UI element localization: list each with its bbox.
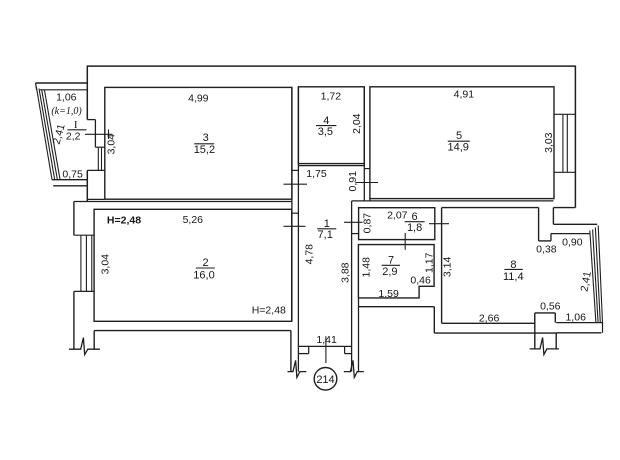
hall below room 4: [298, 87, 370, 201]
svg-text:16,0: 16,0: [193, 270, 214, 282]
svg-text:4,78: 4,78: [303, 244, 315, 265]
wall left lower: [74, 291, 291, 371]
svg-text:3,04: 3,04: [99, 254, 111, 275]
svg-text:15,2: 15,2: [194, 144, 215, 156]
svg-text:0,46: 0,46: [410, 274, 431, 286]
wall band below room 7: [359, 307, 435, 333]
svg-text:1,48: 1,48: [361, 257, 373, 278]
wall top outer: [87, 65, 575, 67]
corridor right wall pair: [352, 201, 359, 372]
svg-text:0,38: 0,38: [536, 244, 557, 256]
room 3: [105, 87, 292, 199]
room 7 number: [382, 255, 400, 278]
svg-text:2,9: 2,9: [382, 266, 397, 278]
svg-text:4,99: 4,99: [188, 92, 209, 104]
dimension tick 1,17 wall: [429, 223, 449, 225]
svg-text:H=2,48: H=2,48: [107, 215, 141, 227]
dimension ticks left pair: [284, 183, 308, 185]
window balcony-room3: [87, 147, 105, 170]
wall pair rooms3/2 vs corridor: [292, 87, 299, 347]
dimension tick 0,91: [356, 182, 379, 184]
wall left upper: [87, 66, 95, 148]
room 3 number: [194, 132, 215, 156]
svg-text:11,4: 11,4: [503, 271, 524, 283]
svg-text:1,17: 1,17: [424, 252, 436, 273]
svg-text:2,07: 2,07: [387, 210, 408, 222]
balcony right top wall: [551, 224, 597, 241]
svg-text:1,06: 1,06: [56, 92, 77, 104]
leader 2,2: [85, 130, 112, 140]
room 6: [359, 208, 435, 240]
svg-text:1,41: 1,41: [316, 334, 337, 346]
svg-text:3,14: 3,14: [442, 257, 454, 278]
room 5: [370, 87, 554, 199]
svg-text:5,26: 5,26: [183, 214, 204, 226]
svg-text:5: 5: [456, 130, 462, 142]
window room5 right: [554, 114, 575, 172]
break mark bottom-left: [69, 338, 100, 355]
dimension tick 0,87: [344, 221, 363, 223]
svg-text:0,91: 0,91: [347, 171, 359, 192]
room 2: [94, 209, 292, 321]
room 8 number: [503, 259, 524, 283]
svg-text:14,9: 14,9: [447, 142, 468, 154]
room 4: [298, 87, 364, 164]
svg-text:214: 214: [316, 374, 334, 386]
svg-text:1,72: 1,72: [321, 90, 342, 102]
svg-text:0,75: 0,75: [62, 169, 83, 181]
room 4 number: [316, 115, 336, 138]
break mark entrance left: [288, 360, 307, 377]
wall step 0,56: [535, 313, 556, 349]
wall bottom lower line right: [434, 333, 556, 349]
room 2 number: [193, 257, 215, 281]
svg-text:2,66: 2,66: [479, 313, 500, 325]
svg-text:1,59: 1,59: [378, 288, 399, 300]
break mark entrance right: [344, 360, 364, 377]
svg-text:2,04: 2,04: [351, 113, 363, 134]
svg-text:1,06: 1,06: [565, 312, 586, 324]
svg-text:3,5: 3,5: [318, 126, 333, 138]
svg-text:3,88: 3,88: [340, 262, 352, 283]
break mark bottom-right: [530, 338, 559, 355]
corridor top line: [352, 200, 554, 202]
svg-text:H=2,48: H=2,48: [252, 304, 286, 316]
svg-text:7,1: 7,1: [318, 229, 333, 241]
svg-text:4,91: 4,91: [454, 88, 475, 100]
wall left mid: [74, 170, 292, 235]
svg-text:3,04: 3,04: [106, 134, 118, 155]
svg-text:0,87: 0,87: [362, 213, 374, 234]
balcony right glazing slant: [590, 226, 603, 323]
wall right step: [553, 208, 575, 225]
apartment number circle 214: [314, 368, 337, 391]
balcony right bottom wall: [556, 323, 603, 333]
svg-text:1,75: 1,75: [306, 168, 327, 180]
window room2 left: [74, 235, 94, 291]
svg-text:2,2: 2,2: [66, 131, 81, 143]
fraction bar balcony: [68, 129, 87, 131]
svg-text:2: 2: [203, 257, 209, 269]
balcony left glazing slant: [36, 87, 60, 180]
room 5 number: [447, 130, 469, 153]
svg-text:1,8: 1,8: [407, 222, 422, 234]
svg-text:3,03: 3,03: [543, 132, 555, 153]
entrance wall bottom: [298, 346, 351, 371]
svg-text:0,90: 0,90: [562, 237, 583, 249]
leader 1,41: [325, 336, 327, 363]
wall right outer: [574, 66, 576, 208]
svg-text:3: 3: [203, 132, 209, 144]
room 6 number: [405, 211, 425, 234]
balcony left bottom wall: [52, 180, 88, 186]
svg-text:I: I: [74, 119, 78, 131]
room 1 number: [317, 218, 336, 241]
balcony left top wall: [36, 83, 88, 90]
svg-text:(k=1,0): (k=1,0): [51, 106, 82, 117]
room 8: [442, 208, 551, 324]
room 7: [358, 245, 434, 298]
dimension tick rooms 6/7: [404, 233, 406, 250]
svg-text:0,56: 0,56: [540, 301, 561, 313]
